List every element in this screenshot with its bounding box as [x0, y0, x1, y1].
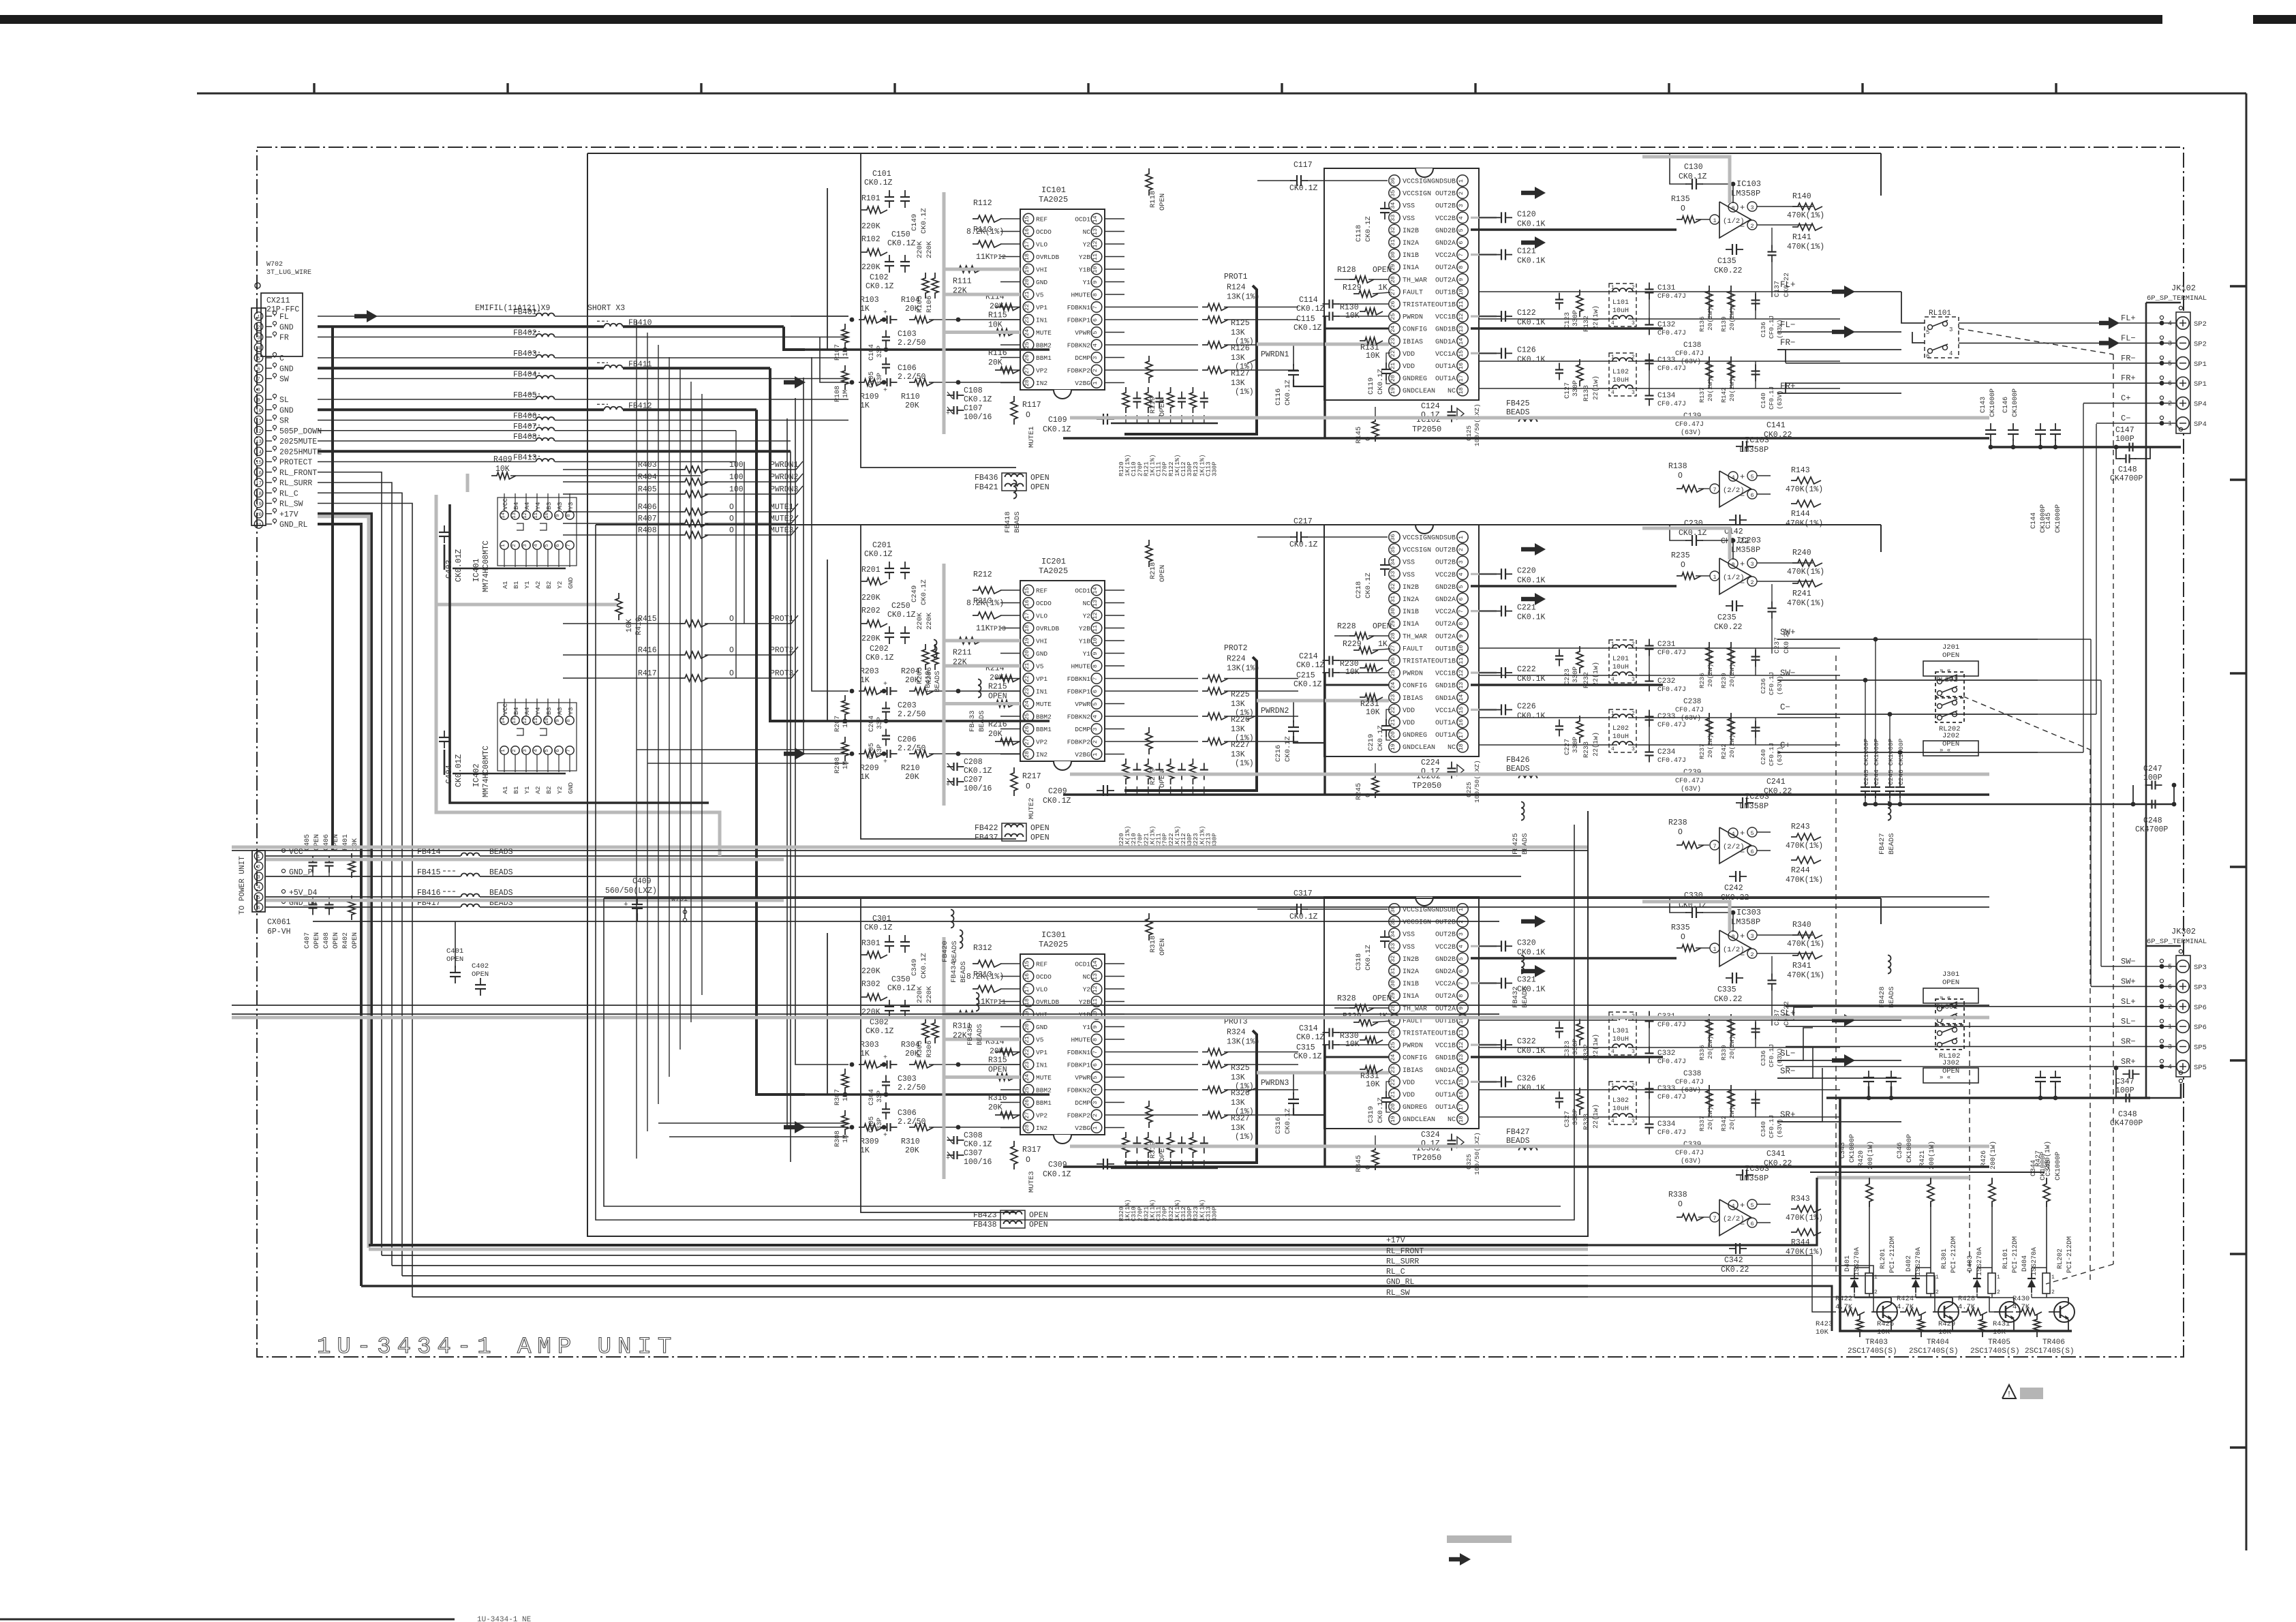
svg-text:12: 12	[523, 512, 528, 519]
svg-text:C134: C134	[1657, 392, 1676, 400]
svg-text:C315: C315	[1296, 1043, 1315, 1052]
svg-text:−: −	[1740, 491, 1745, 501]
svg-text:VSS: VSS	[1403, 203, 1415, 211]
svg-text:+: +	[946, 782, 950, 789]
svg-text:2: 2	[1632, 354, 1635, 361]
svg-text:1: 1	[1997, 1274, 2000, 1281]
svg-text:FB406: FB406	[513, 412, 537, 421]
IC202 pin 15 VCC1A	[1457, 704, 1468, 715]
svg-text:R108: R108	[834, 386, 842, 402]
IC201 pin 11 Y2B	[1091, 623, 1102, 634]
IC102 pin 1 GNDSUB	[1457, 175, 1468, 186]
svg-text:10K: 10K	[1345, 1040, 1360, 1049]
svg-text:36: 36	[1390, 906, 1396, 913]
svg-text:FL+: FL+	[1780, 280, 1796, 290]
capacitor C233 CF0.47J	[1645, 716, 1654, 717]
gray VCC drop to IC401	[466, 474, 470, 492]
svg-text:33: 33	[1390, 571, 1396, 578]
svg-text:3: 3	[1949, 326, 1953, 333]
svg-text:CF0.47J: CF0.47J	[1657, 1058, 1686, 1066]
svg-text:GND1B: GND1B	[1435, 683, 1456, 690]
svg-text:C122: C122	[1517, 309, 1536, 318]
svg-text:PCI-212DM: PCI-212DM	[1950, 1236, 1958, 1273]
svg-text:2: 2	[1750, 579, 1754, 586]
svg-text:C240: C240	[1760, 749, 1767, 765]
capacitor C304 33P rotated	[882, 1081, 890, 1082]
IC301 pin 11 Y2B	[1091, 996, 1102, 1007]
svg-text:CK0.1Z: CK0.1Z	[964, 395, 992, 404]
svg-text:11: 11	[1458, 301, 1465, 307]
svg-text:30: 30	[1390, 608, 1396, 615]
svg-text:C126: C126	[1517, 346, 1536, 354]
svg-text:VP2: VP2	[1036, 739, 1047, 746]
svg-text:2025HMUTE: 2025HMUTE	[279, 448, 322, 457]
IC301 pin 7 FDBKN1	[1091, 1047, 1102, 1058]
svg-text:OUT2A: OUT2A	[1435, 1005, 1456, 1013]
svg-text:CX061: CX061	[267, 918, 291, 927]
svg-text:CK0.1Z: CK0.1Z	[1377, 369, 1385, 395]
svg-text:R228: R228	[1337, 622, 1356, 631]
CONFIG thick trace	[1325, 328, 1389, 330]
svg-text:FB435: FB435	[966, 1024, 975, 1045]
svg-text:23: 23	[1024, 1061, 1030, 1068]
svg-text:R104: R104	[901, 296, 920, 305]
svg-text:R317: R317	[1022, 1146, 1041, 1154]
svg-text:100: 100	[729, 485, 744, 494]
capacitor C348 CK4700P	[2125, 1094, 2126, 1103]
svg-text:11K: 11K	[976, 253, 990, 262]
svg-text:FDBKP2: FDBKP2	[1067, 1112, 1091, 1120]
svg-text:26: 26	[1390, 657, 1396, 664]
CX211 pin 7 SW	[254, 374, 262, 382]
ferrite bead FB435 BEADS rotated	[976, 993, 979, 1011]
IC102 pin 10 OUT1B	[1457, 286, 1468, 297]
svg-text:11: 11	[1092, 998, 1099, 1005]
svg-text:SP6: SP6	[2194, 1024, 2207, 1032]
svg-text:RL_C: RL_C	[1386, 1268, 1405, 1276]
svg-text:L102: L102	[1612, 369, 1629, 376]
resistor R108 1M rotated	[842, 365, 848, 390]
svg-text:6: 6	[1458, 597, 1465, 600]
svg-text:10K: 10K	[1366, 708, 1380, 717]
svg-text:CK0.1Z: CK0.1Z	[1043, 1170, 1071, 1179]
svg-text:11: 11	[1458, 657, 1465, 664]
svg-text:Y2B: Y2B	[1079, 254, 1090, 261]
svg-text:23: 23	[1024, 688, 1030, 694]
svg-text:6: 6	[1092, 1063, 1099, 1067]
svg-text:R245: R245	[1355, 783, 1363, 800]
svg-text:20K: 20K	[905, 773, 919, 782]
svg-text:C201: C201	[872, 541, 891, 550]
gray trace to relay coils	[1817, 1176, 1970, 1180]
svg-text:OUT2B: OUT2B	[1435, 547, 1456, 555]
svg-text:CK0.1Z: CK0.1Z	[1289, 184, 1318, 193]
IC202 pin 34 VSS	[1389, 556, 1400, 567]
IC202 pin 9 OUT2A	[1457, 630, 1468, 641]
svg-text:CF0.47J: CF0.47J	[1657, 649, 1686, 657]
svg-text:9: 9	[555, 719, 561, 722]
svg-text:A4: A4	[523, 502, 531, 510]
svg-text:SR+: SR+	[2121, 1057, 2136, 1067]
svg-text:B3: B3	[545, 502, 553, 510]
svg-text:1K: 1K	[860, 401, 870, 410]
svg-text:PWRDN2: PWRDN2	[1261, 707, 1289, 716]
svg-text:10K: 10K	[1345, 311, 1360, 320]
svg-text:33P: 33P	[876, 1090, 884, 1103]
IC202 pin 6 GND2A	[1457, 593, 1468, 604]
svg-text:PROT2: PROT2	[1224, 644, 1248, 653]
svg-text:8: 8	[566, 514, 572, 517]
svg-text:L101: L101	[1612, 299, 1629, 307]
svg-text:R126: R126	[1231, 344, 1250, 353]
svg-text:VCC1B: VCC1B	[1435, 1043, 1456, 1050]
svg-text:9: 9	[1458, 1007, 1465, 1010]
resistors R124-R127 13K(1%)	[1202, 304, 1228, 311]
svg-text:OUT1A: OUT1A	[1435, 732, 1456, 739]
svg-text:B1: B1	[512, 581, 520, 589]
svg-text:13K: 13K	[1231, 328, 1245, 337]
IC102 pin 35 VCCSIGN	[1389, 187, 1400, 198]
svg-text:C103: C103	[898, 330, 917, 339]
channel 2 top loop wires	[861, 524, 1881, 525]
svg-text:VPWR: VPWR	[1075, 701, 1090, 708]
svg-text:20(2W): 20(2W)	[1706, 378, 1714, 401]
svg-text:SW: SW	[279, 376, 289, 384]
svg-text:CF0.47J: CF0.47J	[1675, 1079, 1704, 1086]
svg-text:CK0.1Z: CK0.1Z	[887, 611, 916, 619]
svg-text:R424: R424	[1897, 1295, 1914, 1303]
IC101 pin 25 BBM2	[1023, 339, 1034, 350]
IC301 pin 19 VHI	[1023, 1009, 1034, 1020]
svg-text:C109: C109	[1048, 416, 1067, 425]
svg-text:NC: NC	[1448, 1116, 1456, 1124]
jog SL+ to JK302	[1777, 1007, 1813, 1020]
capacitor C336 CF0.1J (63V) rotated	[1751, 1028, 1760, 1029]
feedback RC ladder R120-C113	[1122, 387, 1129, 413]
svg-text:RL_SURR: RL_SURR	[279, 479, 312, 488]
CX211 pin 18 RL_C	[254, 489, 262, 497]
svg-text:C105: C105	[868, 371, 876, 388]
JK302 terminal SP3 +	[2177, 980, 2189, 992]
svg-text:TP2050: TP2050	[1412, 1153, 1441, 1163]
svg-text:1M: 1M	[842, 1135, 850, 1143]
svg-text:CK1000P: CK1000P	[2055, 504, 2062, 533]
svg-text:A2: A2	[534, 786, 542, 794]
gray trace IBIAS row	[1257, 1071, 1389, 1075]
IC202 pin 5 GND2B	[1457, 581, 1468, 592]
IC301 pin 8 HMUTE	[1091, 1034, 1102, 1045]
IC101 pin 3 DCMP	[1091, 352, 1102, 363]
svg-text:R101: R101	[861, 194, 881, 203]
svg-text:FL−: FL−	[2121, 333, 2136, 343]
svg-text:4: 4	[1092, 343, 1099, 347]
svg-text:21: 21	[1390, 719, 1396, 726]
IC302 pin 4 VCC2B	[1457, 940, 1468, 951]
inductor L202 10uH dashed box	[1609, 709, 1636, 752]
svg-text:VLO: VLO	[1036, 986, 1047, 994]
IC101 pin 13 NC	[1091, 226, 1102, 237]
capacitor C108 CK0.1Z	[953, 391, 954, 399]
svg-text:CK0.1K: CK0.1K	[1517, 675, 1546, 684]
capacitors C243-C246 CK1000P on net drops	[1865, 680, 1866, 782]
relay linkage dashed diagonal from RL101	[1959, 328, 2113, 354]
IC102 pin 34 VSS	[1389, 200, 1400, 211]
svg-text:22: 22	[1024, 304, 1030, 311]
svg-text:RL_C: RL_C	[279, 489, 299, 498]
svg-text:MUTE2: MUTE2	[1028, 797, 1036, 819]
svg-text:25: 25	[1024, 1086, 1030, 1093]
svg-text:BEADS: BEADS	[951, 940, 959, 962]
svg-text:2: 2	[1632, 1083, 1635, 1089]
svg-text:3: 3	[523, 544, 528, 547]
svg-text:C407: C407	[304, 932, 311, 949]
svg-text:IN2A: IN2A	[1403, 968, 1419, 976]
svg-text:7: 7	[566, 544, 572, 547]
svg-text:220K: 220K	[861, 634, 881, 643]
capacitor C326 CK0.1K	[1501, 1076, 1502, 1087]
svg-text:SR: SR	[279, 417, 289, 426]
svg-text:CF0.47J: CF0.47J	[1657, 1129, 1686, 1137]
capacitors C143 C146 CK1000P	[1985, 429, 1996, 431]
thick GND2B trace	[1471, 585, 1677, 587]
gray trace to op-amp pin8	[1642, 902, 1730, 932]
svg-text:J301: J301	[1942, 970, 1959, 979]
IC202 pin 30 IN1B	[1389, 605, 1400, 616]
IC202 pin 20 GNDREG	[1389, 729, 1400, 739]
capacitor C334 CF0.47J	[1645, 1123, 1654, 1124]
svg-text:11: 11	[534, 718, 539, 724]
IC302 pin 24 CONFIG	[1389, 1052, 1400, 1062]
op-amp1 output wires	[1771, 562, 1813, 564]
svg-text:4: 4	[1092, 715, 1099, 718]
svg-text:9: 9	[1458, 278, 1465, 281]
svg-text:NC: NC	[1083, 228, 1091, 236]
svg-text:C202: C202	[870, 645, 889, 654]
svg-text:OPEN: OPEN	[472, 970, 489, 979]
svg-text:FR: FR	[279, 334, 289, 343]
relay RL202 contacts dashed box	[1935, 698, 1964, 722]
IC201 pin 19 VHI	[1023, 635, 1034, 646]
svg-text:C215: C215	[1296, 671, 1315, 680]
IC302 pin 33 VSS	[1389, 940, 1400, 951]
svg-text:C244 CK1000P: C244 CK1000P	[1873, 738, 1880, 785]
svg-text:C248: C248	[2143, 816, 2162, 825]
svg-text:R423: R423	[1816, 1320, 1833, 1328]
arrow OUT2B	[1521, 547, 1536, 551]
thick GND1B trace	[1471, 684, 1663, 686]
svg-text:FR−: FR−	[2121, 354, 2136, 363]
svg-text:CF0.47J: CF0.47J	[1657, 1094, 1686, 1101]
svg-text:OUT2B: OUT2B	[1435, 932, 1456, 939]
IC301 pin 17 VLO	[1023, 983, 1034, 994]
svg-text:FAULT: FAULT	[1403, 289, 1423, 296]
svg-text:10K: 10K	[988, 321, 1002, 330]
svg-text:22: 22	[1390, 350, 1396, 357]
svg-text:4: 4	[1611, 1118, 1614, 1124]
capacitor C320 CK0.1K	[1501, 940, 1502, 951]
svg-text:SP5: SP5	[2194, 1064, 2207, 1072]
IC101 pin 1 V2BG	[1091, 378, 1102, 388]
svg-text:MUTE1: MUTE1	[770, 503, 794, 512]
svg-text:VCC2A: VCC2A	[1435, 609, 1456, 616]
channel 3 thick bottom trace	[1063, 1165, 1989, 1167]
CX211 pin 6 GND	[254, 364, 262, 372]
IC102 pin 26 TRISTATE	[1389, 299, 1400, 309]
svg-text:A4: A4	[523, 707, 531, 715]
svg-text:23: 23	[1390, 694, 1396, 701]
left bus vertical drops from CX211 pins 16-21	[318, 472, 382, 1255]
svg-text:Y2: Y2	[556, 786, 564, 794]
svg-text:V5: V5	[1036, 663, 1044, 671]
svg-text:10: 10	[545, 512, 550, 519]
svg-text:VDD: VDD	[1403, 720, 1415, 727]
IC102 pin 24 CONFIG	[1389, 323, 1400, 334]
svg-text:3: 3	[1632, 1049, 1635, 1055]
svg-text:20K: 20K	[988, 730, 1002, 739]
svg-text:C136: C136	[1760, 322, 1767, 337]
svg-text:26: 26	[1024, 354, 1030, 361]
capacitor C204 33P rotated	[882, 707, 890, 709]
capacitor C231 CF0.47J	[1645, 645, 1654, 646]
svg-text:IN1: IN1	[1036, 1062, 1047, 1069]
svg-text:C350: C350	[891, 975, 910, 984]
svg-text:16: 16	[1458, 1091, 1465, 1098]
svg-text:12: 12	[1092, 985, 1099, 992]
svg-text:1: 1	[501, 544, 506, 547]
IC202 pin 16 OUT1A	[1457, 716, 1468, 727]
svg-text:2: 2	[1632, 641, 1635, 647]
svg-text:C208: C208	[964, 758, 983, 767]
diode D402 1SS270A	[1912, 1279, 1920, 1287]
IC201 pin 12 Y2	[1091, 610, 1102, 621]
svg-text:13: 13	[1092, 973, 1099, 980]
capacitor C102 CK0.1Z	[900, 261, 910, 262]
IC102 pin 8 OUT2A	[1457, 262, 1468, 273]
IC101 pin 17 VLO	[1023, 239, 1034, 249]
IC102 pin 30 IN1B	[1389, 249, 1400, 260]
svg-text:FL−: FL−	[1780, 320, 1796, 330]
svg-text:13: 13	[256, 440, 262, 445]
capacitor C308 CK0.1Z	[953, 1136, 954, 1144]
svg-text:CF0.47J: CF0.47J	[1675, 778, 1704, 785]
arrow on FL wire	[354, 314, 368, 318]
svg-text:5: 5	[1092, 702, 1099, 705]
svg-text:2: 2	[257, 325, 260, 331]
svg-text:NC: NC	[1448, 388, 1456, 395]
svg-text:OUT1B: OUT1B	[1435, 1030, 1456, 1038]
svg-text:26: 26	[1024, 1099, 1030, 1106]
svg-text:4: 4	[257, 346, 260, 352]
IC102 pin 27 FAULT	[1389, 286, 1400, 297]
svg-text:FB403: FB403	[513, 350, 537, 358]
svg-text:GND: GND	[1036, 1024, 1047, 1031]
svg-text:C321: C321	[1517, 976, 1536, 985]
svg-text:22: 22	[1390, 707, 1396, 714]
JK302 terminal SP6 −	[2177, 1020, 2189, 1032]
capacitor C103 2.2/50 electrolytic	[886, 316, 887, 324]
IC101 pin 22 VP1	[1023, 302, 1034, 313]
svg-text:4: 4	[1731, 474, 1734, 481]
black trace above relay coils	[1810, 1172, 2045, 1173]
svg-text:REF: REF	[1036, 216, 1047, 224]
IC302 pin 7 VCC2A	[1457, 977, 1468, 988]
IC202 pin 2 OUT2B	[1457, 544, 1468, 555]
svg-text:3: 3	[1458, 204, 1465, 207]
svg-text:CK0.1Z: CK0.1Z	[920, 208, 928, 234]
svg-text:IN1B: IN1B	[1403, 609, 1419, 616]
IC202 pin 18 NC	[1457, 741, 1468, 752]
svg-text:5: 5	[545, 544, 550, 547]
svg-text:BEADS: BEADS	[489, 848, 513, 857]
thick GND1B trace	[1471, 327, 1663, 329]
ferrite bead FB415 BEADS	[266, 876, 461, 877]
svg-text:IN1B: IN1B	[1403, 981, 1419, 988]
svg-text:3: 3	[1750, 204, 1754, 211]
svg-text:7: 7	[1458, 254, 1465, 257]
inductor L102 10uH dashed box	[1609, 353, 1636, 396]
svg-text:DCMP: DCMP	[1075, 354, 1090, 362]
svg-text:VLO: VLO	[1036, 613, 1047, 620]
svg-text:R233: R233	[1583, 741, 1591, 758]
IC101 pin 5 VPWR	[1091, 327, 1102, 338]
svg-text:3: 3	[1750, 933, 1754, 940]
svg-text:OCDO: OCDO	[1036, 228, 1052, 236]
IC101 pin 4 FDBKN2	[1091, 339, 1102, 350]
svg-text:10: 10	[1092, 637, 1099, 644]
IC302 pin 5 GND2B	[1457, 953, 1468, 964]
gray horizontal trace row 3	[232, 1016, 1989, 1020]
svg-text:2.2/50: 2.2/50	[898, 373, 926, 382]
svg-text:VCC: VCC	[502, 498, 509, 510]
base feed line TR403	[1588, 1255, 1836, 1312]
svg-text:2: 2	[1750, 951, 1754, 958]
svg-text:FB438: FB438	[973, 1221, 997, 1229]
gray trace IBIAS row	[1257, 343, 1389, 346]
arrow GND2A	[1521, 241, 1536, 245]
svg-text:OUT2B: OUT2B	[1435, 560, 1456, 567]
resistor R217 0 vertical	[1011, 767, 1017, 796]
svg-text:2: 2	[512, 749, 517, 752]
svg-text:C326: C326	[1517, 1074, 1536, 1083]
IC102 pin 21 VDD	[1389, 360, 1400, 371]
svg-text:1: 1	[257, 315, 260, 320]
svg-text:C107: C107	[964, 404, 983, 413]
svg-text:GND1A: GND1A	[1435, 1067, 1456, 1075]
svg-text:GND1A: GND1A	[1435, 695, 1456, 703]
capacitor C240 CF0.1J (63V) rotated	[1751, 726, 1760, 728]
svg-text:15: 15	[1024, 960, 1030, 967]
svg-text:2.2/50: 2.2/50	[898, 339, 926, 348]
svg-text:(63V): (63V)	[1681, 1157, 1701, 1165]
svg-text:W702: W702	[266, 261, 283, 269]
svg-text:B2: B2	[545, 581, 553, 589]
ground bus ch3 line	[1826, 1097, 2150, 1099]
svg-text:12: 12	[1458, 313, 1465, 320]
svg-text:BEADS: BEADS	[960, 961, 968, 983]
IC202 pin 22 VDD	[1389, 704, 1400, 715]
IC102 pin 16 OUT1A	[1457, 360, 1468, 371]
ferrite bead FB427 BEADS rotated	[1888, 802, 1891, 821]
svg-text:C124: C124	[1421, 402, 1440, 411]
mid-page horizontal bus pair 3	[232, 1005, 1989, 1006]
svg-text:OUT2B: OUT2B	[1435, 203, 1456, 211]
svg-text:GND: GND	[279, 406, 294, 415]
svg-text:VCC1A: VCC1A	[1435, 351, 1456, 358]
svg-text:VHI: VHI	[1036, 638, 1047, 645]
svg-text:LM358P: LM358P	[1731, 545, 1760, 555]
IC101 pin 24 MUTE	[1023, 327, 1034, 338]
wire FL pin1 with bead FB401	[318, 316, 536, 317]
